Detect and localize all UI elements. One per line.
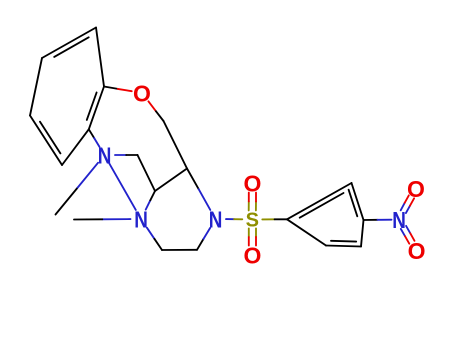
right benzene edge RTL-RR <box>352 183 364 220</box>
bond Ca-V1 <box>138 155 156 191</box>
S=O up double bond (near S) <box>248 201 250 210</box>
N=O down double bond (near Ond) <box>410 233 414 241</box>
N=O up double bond (near N4) <box>406 206 410 213</box>
right benzene edge RL-RTL <box>287 183 352 219</box>
right benzene inner RBR-RBL <box>331 240 356 243</box>
N=O down double bond (near N4) <box>406 226 410 233</box>
left benzene edge E-F <box>89 87 104 130</box>
left benzene edge D-E <box>62 129 89 165</box>
svg-text:S: S <box>246 210 259 232</box>
S=O down double bond (near Osd) <box>255 237 257 246</box>
N=O up double bond (near Onu) <box>410 198 414 205</box>
bond Cbl-Cbr <box>162 249 197 251</box>
bond N2-methyl (near m2) <box>74 218 102 220</box>
bond Cbr-N3 (near N3) <box>204 228 211 239</box>
right benzene inner RL-RTL <box>300 193 344 218</box>
S=O down double bond (near S) <box>248 228 250 237</box>
S=O up double bond (near Osu) <box>248 193 250 202</box>
bond E-N1 (near E) <box>89 129 94 138</box>
bond N2-Cbl (near N2) <box>147 228 155 239</box>
S=O up double bond (near Osu) <box>255 193 257 202</box>
svg-text:N: N <box>134 208 148 233</box>
S=O down double bond (near S) <box>255 228 257 237</box>
bond N2-V1 (near V1) <box>150 191 155 200</box>
left benzene inner E-F <box>87 93 97 120</box>
bond Cb-N3 (near Cb) <box>187 169 199 190</box>
S=O up double bond (near S) <box>255 202 257 211</box>
svg-text:N: N <box>392 208 406 233</box>
left benzene edge F-A <box>96 28 104 87</box>
bond S-RL (near RL) <box>275 218 287 220</box>
svg-text:O: O <box>133 80 151 106</box>
bond O1-G (near G) <box>156 111 164 121</box>
bond Cbr-N3 (near Cbr) <box>197 239 204 250</box>
N=O down double bond (near N4) <box>401 229 405 236</box>
bond N2-Cbl (near Cbl) <box>154 239 162 250</box>
bond N1-N2 <box>109 163 136 210</box>
left benzene edge C-D <box>30 116 62 166</box>
S=O down double bond (near Osd) <box>248 237 250 246</box>
bond N1-Ca (near N1) <box>115 154 126 156</box>
bond Cb-N3 (near N3) <box>199 189 211 210</box>
right benzene edge RBR-RBL <box>326 246 361 247</box>
left benzene edge A-B <box>42 28 96 59</box>
svg-text:O: O <box>244 170 262 196</box>
bond N1-M methyl (near N1) <box>77 163 98 189</box>
bond N3-S (near S) <box>234 218 242 220</box>
left benzene inner A-B <box>54 37 88 57</box>
svg-text:N: N <box>209 208 223 233</box>
bond N1-M methyl (near M) <box>56 189 77 215</box>
bond S-RL (near S) <box>262 218 274 220</box>
bond O1-G (near O1) <box>148 101 156 111</box>
bond RR-N4 (near N4) <box>378 219 392 221</box>
bond N3-S (near N3) <box>226 218 234 220</box>
svg-text:O: O <box>244 242 262 268</box>
left benzene edge B-C <box>30 58 42 116</box>
right benzene inner RTL-RR <box>349 190 358 217</box>
bond N2-methyl (near N2) <box>102 218 130 220</box>
left benzene inner C-D <box>40 122 60 154</box>
bond V1-Cb <box>155 169 187 192</box>
svg-text:O: O <box>408 238 426 264</box>
N=O up double bond (near N4) <box>401 203 405 211</box>
bond F-O1 (near O1) <box>118 89 132 91</box>
right benzene edge RBL-RL <box>287 219 326 245</box>
svg-text:O: O <box>407 176 425 202</box>
bond N2-V1 (near N2) <box>146 200 151 209</box>
bond N1-Ca (near Ca) <box>126 154 137 156</box>
bond F-O1 (near F) <box>104 87 118 89</box>
bond G-Cb <box>164 121 188 169</box>
svg-text:N: N <box>98 144 112 169</box>
bond RR-N4 (near RR) <box>364 219 378 221</box>
N=O up double bond (near Onu) <box>405 195 409 202</box>
N=O down double bond (near Ond) <box>405 236 409 243</box>
bond E-N1 (near N1) <box>94 138 99 147</box>
right benzene edge RR-RBR <box>361 220 364 247</box>
